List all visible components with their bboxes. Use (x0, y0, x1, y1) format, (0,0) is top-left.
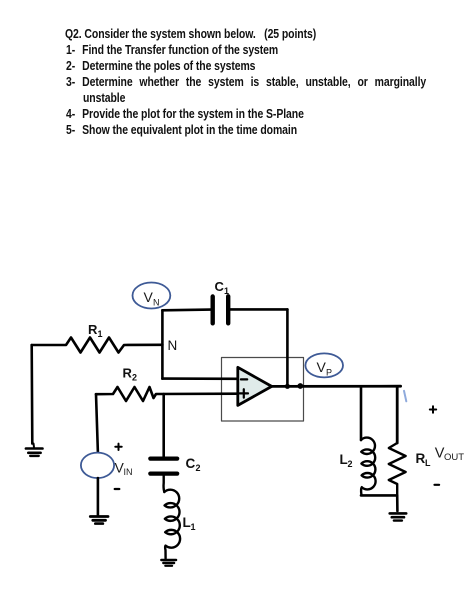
svg-text:R: R (123, 366, 133, 381)
label C2 (186, 456, 201, 473)
svg-text:1: 1 (98, 329, 103, 339)
wire RL to ground (396, 495, 399, 511)
label V_OUT (435, 446, 464, 464)
wire from Vin corner through R2 to non-inverting input (96, 387, 239, 401)
ground G2 under Vin (90, 517, 108, 524)
wire right vertical down to output node (286, 309, 289, 386)
wire C2 to L1 (162, 476, 165, 492)
wire from C1 right plate to corner (230, 308, 287, 311)
label R2 (123, 366, 138, 383)
svg-text:2: 2 (348, 459, 353, 469)
inductor L2 (361, 438, 376, 495)
label V_P (317, 359, 333, 378)
wire L2 branch vertical (360, 386, 363, 440)
svg-text:L: L (425, 458, 431, 468)
svg-text:R: R (88, 322, 98, 337)
ground G4 under RL (390, 513, 407, 520)
op-amp U1 outer box (222, 358, 304, 422)
node V_N ellipse (133, 283, 171, 309)
label L1 (183, 515, 196, 532)
wire C2 branch from R2 wire (162, 394, 165, 456)
label L2 (340, 452, 353, 469)
junction dot at C1 feedback (285, 384, 290, 389)
wire Vin branch top (96, 394, 98, 453)
wire inverting input from N (162, 377, 237, 380)
junction dot at box edge (297, 383, 303, 389)
node V_P ellipse (305, 353, 343, 377)
capacitor C1 (213, 296, 229, 323)
capacitor C2 (150, 459, 177, 474)
wire output (272, 385, 401, 388)
label C1 (215, 279, 230, 296)
svg-text:V: V (144, 289, 154, 305)
label V_IN (115, 460, 133, 478)
wire node N vertical (161, 310, 164, 378)
label RL (416, 451, 432, 468)
svg-text:L: L (183, 515, 191, 530)
inductor L1 (164, 490, 180, 559)
blue tick mark (404, 391, 406, 402)
wire top horizontal to C1 left plate (162, 308, 210, 311)
svg-text:C: C (186, 456, 196, 471)
svg-text:P: P (326, 368, 332, 378)
label V_N (144, 289, 160, 308)
label - (Vout) (435, 484, 440, 486)
label + (Vout) (430, 406, 436, 412)
resistor R1 zigzag (32, 338, 163, 353)
wire bottom between L2 and RL (361, 494, 397, 497)
svg-text:OUT: OUT (444, 452, 464, 463)
op-amp U1 triangle (238, 367, 272, 405)
question text (65, 26, 316, 41)
svg-text:V: V (317, 359, 327, 375)
label - (Vin) (115, 488, 120, 490)
svg-text:2: 2 (132, 373, 137, 383)
svg-text:N: N (168, 338, 178, 353)
wire RL branch vertical top (396, 388, 399, 444)
svg-text:IN: IN (124, 467, 133, 477)
ground G1 left (26, 444, 43, 456)
op-amp minus sign (241, 378, 247, 380)
ground G3 under L1 (161, 560, 176, 566)
svg-text:N: N (153, 298, 160, 308)
svg-text:R: R (416, 451, 426, 466)
svg-text:C: C (215, 279, 225, 294)
label + (Vin) (115, 444, 121, 450)
source V_IN ellipse (81, 453, 114, 478)
op-amp plus sign (240, 389, 248, 397)
svg-text:1: 1 (224, 286, 229, 296)
svg-text:1: 1 (191, 522, 196, 532)
svg-text:2: 2 (196, 463, 201, 473)
wire left vertical from R1 to ground (30, 345, 33, 444)
svg-text:L: L (340, 452, 348, 467)
resistor RL vertical zigzag (389, 443, 406, 495)
wire Vin to ground (97, 478, 100, 515)
label R1 (88, 322, 103, 339)
